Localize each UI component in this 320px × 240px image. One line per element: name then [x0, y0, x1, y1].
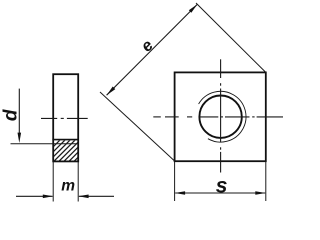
dimension e: extension line from bottom-left corner: [100, 92, 175, 161]
section hatching: [38, 139, 96, 162]
svg-text:m: m: [61, 177, 75, 194]
svg-text:d: d: [0, 109, 21, 121]
dimension s: dimension line: [175, 192, 265, 194]
horizontal centre line: [153, 116, 283, 118]
dimension e: extension line from top-right corner: [196, 3, 266, 72]
dimension m: dimension line left: [16, 195, 53, 197]
vertical centre line: [220, 59, 222, 172]
hole minor-diameter line (bold): [52, 139, 79, 141]
dimension d: arrowhead: [18, 133, 22, 143]
dimension e: dimension line: [107, 4, 198, 95]
dimension d: dimension line: [18, 89, 20, 135]
side view outline: [53, 74, 78, 161]
dimension e: upper arrowhead: [189, 4, 198, 13]
tapped hole (bold circle): [199, 96, 241, 138]
dimension m: dimension line right: [79, 195, 114, 197]
thread major-diameter line / d extension line: [11, 143, 79, 145]
svg-text:e: e: [138, 36, 157, 55]
dimension m: extension lines: [52, 162, 54, 202]
dimension s: left arrowhead: [175, 191, 186, 195]
dimension s: right arrowhead: [255, 191, 265, 195]
face view square outline: [175, 72, 266, 161]
dimension m: left arrowhead: [43, 195, 53, 199]
dimension m: right arrowhead: [78, 195, 88, 199]
svg-text:s: s: [216, 174, 228, 197]
dimension e: lower arrowhead: [107, 87, 116, 96]
side view centre line: [41, 117, 88, 119]
dimension s: extension lines: [174, 161, 176, 201]
thread arc (thin 3/4 circle): [199, 91, 246, 142]
